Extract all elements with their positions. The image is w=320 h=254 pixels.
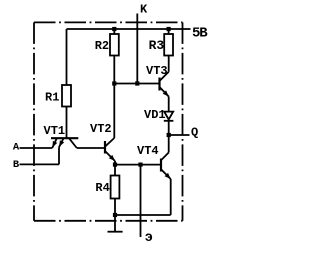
svg-text:VT2: VT2 (90, 122, 112, 136)
svg-text:VT1: VT1 (44, 124, 66, 138)
svg-text:A: A (13, 141, 20, 153)
svg-text:B: B (13, 159, 20, 171)
svg-text:R2: R2 (95, 39, 109, 53)
svg-text:K: K (140, 2, 148, 16)
svg-text:Q: Q (191, 126, 198, 140)
svg-text:R4: R4 (95, 181, 109, 195)
svg-text:VT4: VT4 (137, 144, 159, 158)
svg-text:VT3: VT3 (146, 64, 168, 78)
svg-text:5B: 5B (192, 25, 208, 41)
svg-text:VD1: VD1 (144, 108, 166, 122)
svg-text:R1: R1 (45, 90, 59, 104)
svg-text:э: э (145, 230, 153, 246)
svg-text:R3: R3 (149, 38, 165, 53)
